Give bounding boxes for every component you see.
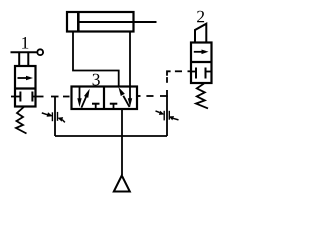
valve V2 flow arrow — [194, 50, 209, 55]
piston rod — [80, 21, 157, 23]
pilot line: right junction up and to valve2 (dashed) — [167, 71, 191, 83]
valve V2 body — [191, 43, 212, 84]
wire: manifold — [55, 135, 167, 137]
pilot line: valve1 to valve3 (dashed) — [36, 96, 70, 98]
label 2 — [197, 11, 204, 23]
wire: right throttle branch — [166, 96, 168, 137]
valve V1 blocked ports T-T — [11, 92, 36, 102]
valve V3 right box down-arrow — [128, 88, 132, 108]
cylinder body — [67, 12, 134, 32]
valve V2 return spring — [196, 84, 208, 109]
air supply source triangle — [114, 176, 130, 192]
valve V2 wedge actuator — [195, 24, 206, 43]
wire: cylinder right port to valve 3 top — [129, 32, 131, 87]
valve V1 flow arrow — [18, 76, 34, 81]
throttle TR (right, on branch) — [156, 111, 179, 121]
wire: cylinder left port to valve 3 top (jog) — [73, 32, 119, 87]
valve V1 return spring — [16, 107, 27, 134]
piston — [77, 12, 80, 32]
valve V3 left box down-arrow — [77, 88, 81, 108]
valve V3 right box blocked port T — [110, 104, 118, 108]
valve V2 blocked ports T-T — [191, 68, 212, 79]
valve V1 roller lever — [11, 49, 44, 66]
throttle TL (left, on branch) — [42, 112, 65, 123]
valve V3 left box blocked port T — [92, 104, 100, 108]
label 1 — [22, 37, 28, 49]
pilot line: valve3 to right junction (dashed) — [137, 90, 167, 96]
label 3 — [93, 74, 100, 86]
wire: supply line valve3 P port to source — [121, 109, 123, 175]
wire: left throttle branch — [54, 97, 56, 137]
valve V3 right box diagonal arrow — [118, 87, 129, 107]
valve V3 body — [72, 87, 138, 110]
valve V3 left box diagonal arrow — [81, 89, 89, 108]
valve V1 body — [15, 66, 36, 107]
